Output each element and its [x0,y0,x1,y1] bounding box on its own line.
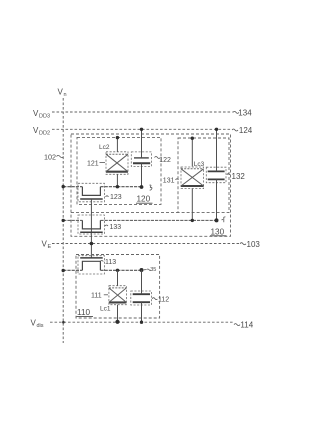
wire node line N3 [63,269,141,271]
label 113 [100,259,116,266]
svg-text:E: E [48,244,52,250]
svg-text:110: 110 [77,308,90,317]
boundary divider line [71,212,178,214]
wire 131 top lead [191,138,193,166]
LC element 111 [109,286,127,305]
junction dot 112 at Vdis [140,321,143,324]
capacitor 112 [131,291,152,305]
svg-text:111: 111 [91,293,102,300]
svg-text:Lc2: Lc2 [99,144,110,151]
wire 112 top lead [141,270,143,294]
node Vn label [58,88,67,99]
label 103 [240,240,260,249]
block box 102 [71,134,231,236]
label 114 [234,321,254,330]
svg-text:103: 103 [247,240,261,249]
label 133 [105,224,121,231]
junction dot N3 at Vn [62,269,65,272]
svg-text:131: 131 [163,178,175,185]
junction dot N1 at 122 [140,185,144,189]
svg-text:102: 102 [44,152,56,161]
block box 110 [76,255,160,319]
junction dot N3 at 111 [116,269,119,272]
junction dot N2 at Vn [62,219,65,222]
label 123 [106,194,122,201]
svg-text:133: 133 [110,224,122,231]
svg-text:35: 35 [150,267,156,273]
svg-text:DD2: DD2 [39,131,50,137]
label 132 [227,172,246,181]
wire 111 top lead [117,270,119,285]
wire 132 top lead riser [216,129,218,171]
svg-text:112: 112 [158,297,169,304]
wire 132 bottom lead [216,179,218,220]
junction dot 111 at Vdis [115,320,119,324]
LC element 121 [106,152,128,175]
wire node line N1 [63,186,141,188]
node VDD3 label [33,109,50,120]
svg-text:114: 114 [240,321,253,330]
label 111 [91,293,108,300]
svg-text:113: 113 [105,259,116,266]
junction dot N2 at 131 [191,219,194,222]
svg-text:134: 134 [238,109,252,118]
junction dot VDD2 x216 [215,128,218,131]
label 120 underlined [136,195,153,204]
junction dot VDD2 x141 [140,128,143,131]
wire 111 bottom lead [117,305,119,323]
junction dot N3 at 112 [140,268,144,272]
svg-text:Lc1: Lc1 [100,306,111,313]
junction dot 121 drain [116,136,119,139]
LC element 131 [181,167,204,189]
svg-text:123: 123 [110,194,122,201]
capacitor 122 [131,152,151,167]
svg-text:122: 122 [159,157,171,164]
transistor 113 [78,256,104,274]
wire Vdis line 114 [50,321,233,323]
svg-text:120: 120 [137,195,151,204]
wire VE line 103 [52,243,239,245]
label 112 [152,297,169,304]
label 124 [232,126,253,135]
label 131 [163,178,179,185]
svg-text:132: 132 [232,172,246,181]
wire Vn vertical bus [62,98,64,343]
junction dot N2 at 132 [215,218,219,222]
node VE label [42,240,52,251]
junction dot gate at VE [90,242,94,246]
wire VDD2 line 124 [52,128,232,130]
svg-text:130: 130 [211,227,225,236]
wire 131 bottom lead [191,188,193,220]
junction dot N1 at Vn [62,185,65,188]
block box around 131 132 [178,138,229,213]
transistor 123 [78,183,104,202]
tick mark N1 end [150,185,153,190]
wire VDD3 line 134 [52,111,233,113]
wire 121 bottom lead [116,174,118,186]
transistor 133 [78,215,104,234]
tick mark N2 end [222,217,226,222]
label 121 [87,160,105,167]
junction dot Vn at Vdis [62,321,65,324]
svg-text:DD3: DD3 [39,114,50,120]
capacitor 132 [206,167,226,183]
wire 122 top lead riser [141,129,143,158]
svg-text:121: 121 [87,160,99,167]
node VDD2 label [33,126,50,137]
label 122 [155,157,171,165]
svg-text:n: n [64,92,67,98]
label 134 [233,109,252,118]
junction dot N1 at 121 [116,185,119,188]
svg-text:dis: dis [37,323,44,329]
wire 122 bottom lead [141,163,143,187]
svg-text:124: 124 [239,126,253,135]
wire gate column VE [90,199,92,258]
node Vdis label [31,319,44,330]
block box 120 [77,137,161,204]
label 130 underlined [210,227,227,236]
wire 121 top lead [116,137,118,151]
tick mark N3 end [144,267,157,273]
label 110 underlined [77,308,94,317]
junction dot 131 drain [191,137,194,140]
wire node line N2 [63,219,216,221]
wire 112 bottom lead [141,302,143,322]
label 102 [44,152,64,161]
